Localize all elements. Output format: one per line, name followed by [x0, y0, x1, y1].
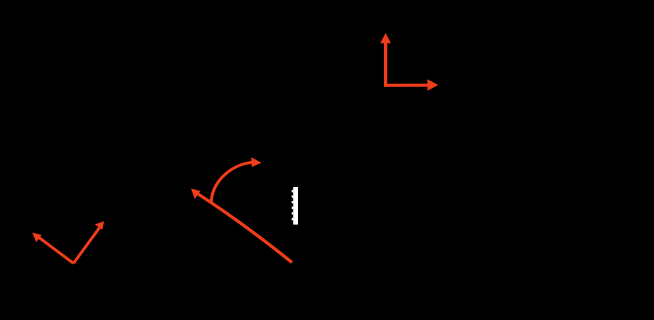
axis y-arrow — [380, 33, 391, 85]
vector arrow left (V pair) — [32, 233, 73, 264]
ray line with arrowhead — [191, 189, 292, 263]
axis x-arrow — [384, 79, 438, 91]
hatched wall bar — [292, 187, 298, 225]
angle arc with arrowhead — [211, 157, 261, 203]
vector arrow right (V pair) — [74, 221, 105, 263]
